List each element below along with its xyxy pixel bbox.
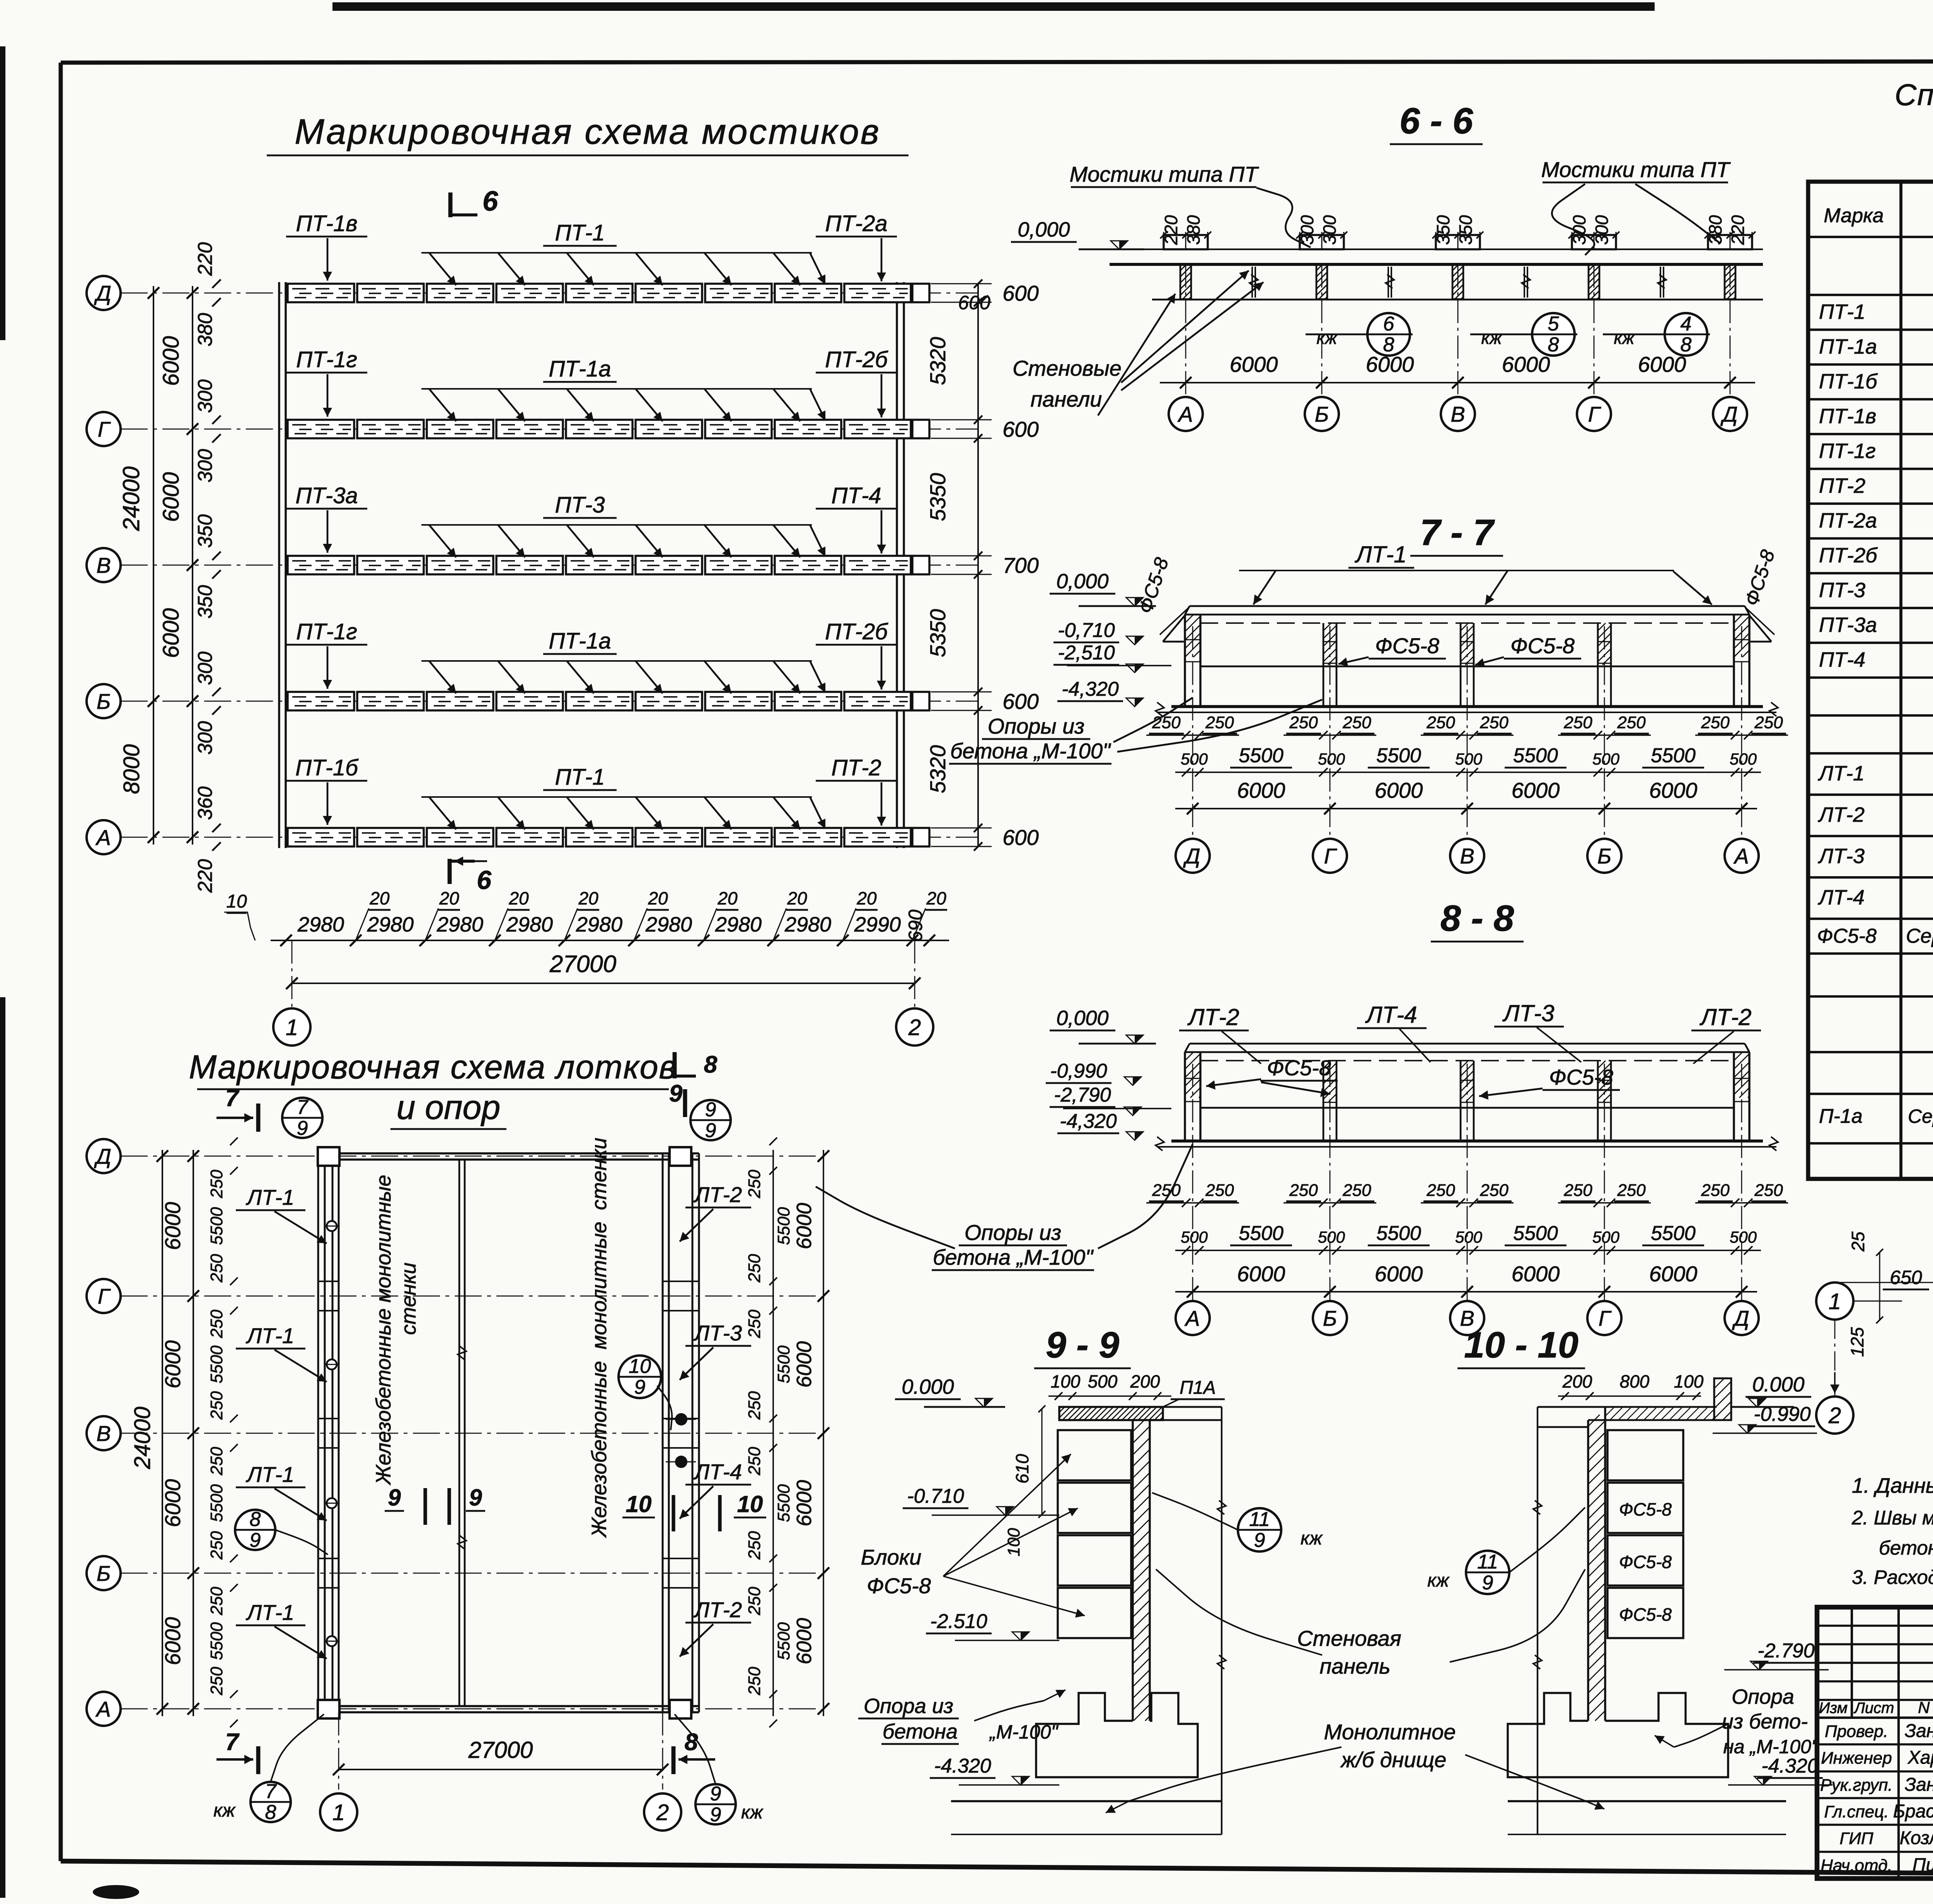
svg-text:0.000: 0.000 [1752,1373,1804,1396]
svg-text:Серия 1.116-1 вып.1: Серия 1.116-1 вып.1 [1906,925,1933,947]
svg-text:2980: 2980 [645,913,692,936]
svg-text:Лист: Лист [1853,1700,1894,1717]
svg-text:ЛТ-1: ЛТ-1 [1354,542,1406,567]
svg-text:10: 10 [626,1491,652,1517]
svg-text:5500: 5500 [774,1484,793,1522]
svg-text:Мостики типа ПТ: Мостики типа ПТ [1541,157,1731,182]
svg-text:500: 500 [1592,1228,1620,1246]
svg-text:П1А: П1А [1180,1378,1216,1398]
svg-text:ЛТ-1: ЛТ-1 [246,1323,294,1348]
svg-text:кж: кж [1301,1528,1323,1549]
svg-text:300: 300 [194,449,216,483]
svg-text:ПТ-1г: ПТ-1г [296,347,357,372]
svg-text:10 - 10: 10 - 10 [1464,1325,1578,1366]
svg-text:-4,320: -4,320 [1060,1110,1117,1133]
svg-text:А: А [1733,844,1749,868]
svg-text:6000: 6000 [1502,352,1550,376]
svg-text:5320: 5320 [926,745,950,794]
svg-text:бетона „М-100": бетона „М-100" [933,1245,1094,1269]
svg-text:6000: 6000 [160,1340,185,1389]
svg-text:500: 500 [1730,1228,1757,1246]
svg-text:-2.510: -2.510 [930,1610,987,1633]
svg-text:250: 250 [1563,713,1592,732]
svg-text:5350: 5350 [926,473,950,521]
svg-text:0,000: 0,000 [1018,218,1070,241]
svg-text:2980: 2980 [784,913,831,936]
svg-text:кж: кж [741,1802,764,1823]
svg-text:Стеновая: Стеновая [1297,1626,1401,1650]
svg-text:Б: Б [97,689,111,714]
svg-text:5500: 5500 [774,1345,793,1383]
svg-text:300: 300 [194,380,216,413]
svg-text:ПТ-1б: ПТ-1б [295,755,359,780]
svg-text:200: 200 [1562,1371,1592,1391]
svg-text:Д: Д [1732,1306,1749,1330]
svg-text:стенки: стенки [397,1262,420,1335]
svg-text:250: 250 [1426,713,1455,732]
svg-text:5500: 5500 [1239,744,1284,767]
svg-text:5500: 5500 [207,1484,226,1522]
svg-text:6000: 6000 [159,336,184,386]
svg-text:Монолитное: Монолитное [1324,1720,1456,1744]
svg-text:ЛТ-2: ЛТ-2 [694,1597,742,1622]
svg-text:380: 380 [194,313,216,347]
svg-text:Г: Г [1588,402,1601,426]
svg-text:ЛТ-1: ЛТ-1 [246,1600,294,1625]
svg-text:250: 250 [207,1447,226,1476]
svg-text:ЛТ-1: ЛТ-1 [1818,762,1865,785]
svg-text:-4.320: -4.320 [1761,1755,1819,1777]
svg-text:ФС5-8: ФС5-8 [1267,1056,1331,1080]
svg-text:ПТ-1: ПТ-1 [1819,300,1865,324]
svg-text:250: 250 [207,1310,226,1339]
svg-text:ЛТ-1: ЛТ-1 [246,1185,294,1209]
svg-text:Маркировочная схема мостиков: Маркировочная схема мостиков [295,112,881,152]
svg-text:250: 250 [745,1254,764,1283]
svg-text:20: 20 [787,888,807,908]
svg-text:250: 250 [745,1447,764,1476]
svg-text:бетона: бетона [883,1720,958,1743]
svg-text:2980: 2980 [715,913,762,936]
svg-text:350: 350 [1456,215,1476,245]
svg-text:Железобетонные монолитные ст: Железобетонные монолитные стенки [588,1138,611,1538]
svg-text:500: 500 [1318,1228,1345,1246]
svg-text:5500: 5500 [774,1207,793,1245]
svg-text:250: 250 [1205,713,1234,732]
svg-text:Д: Д [94,1144,111,1168]
svg-text:9: 9 [388,1485,401,1511]
svg-text:5500: 5500 [1651,1222,1696,1245]
svg-text:25: 25 [1848,1231,1868,1252]
svg-text:бетона „М-100": бетона „М-100" [950,739,1111,763]
svg-text:6000: 6000 [1638,352,1686,376]
svg-text:300: 300 [1297,215,1317,245]
svg-text:6000: 6000 [1375,778,1423,802]
svg-text:ФС5-8: ФС5-8 [867,1574,931,1598]
svg-text:1: 1 [286,1015,298,1040]
svg-text:10: 10 [226,891,247,912]
svg-text:Зантберг: Зантберг [1905,1775,1933,1795]
svg-text:100: 100 [1674,1371,1704,1391]
svg-text:250: 250 [745,1391,764,1420]
svg-text:Б: Б [1315,402,1329,426]
svg-text:Провер.: Провер. [1825,1722,1888,1741]
svg-text:6000: 6000 [1237,778,1285,802]
svg-text:250: 250 [207,1391,226,1420]
svg-text:6000: 6000 [1512,778,1560,802]
svg-text:500: 500 [1730,750,1757,768]
svg-text:ПТ-3а: ПТ-3а [1819,613,1877,637]
svg-text:600: 600 [1002,825,1038,850]
svg-text:Спецификация элементов к марки: Спецификация элементов к маркировочным [1895,78,1933,112]
svg-text:250: 250 [1701,713,1730,732]
svg-text:Нач.отд.: Нач.отд. [1820,1856,1892,1875]
svg-text:6: 6 [1383,313,1394,335]
svg-text:Г: Г [1599,1306,1612,1330]
svg-text:ПТ-2а: ПТ-2а [1819,509,1877,532]
svg-text:250: 250 [207,1254,226,1283]
svg-text:0,000: 0,000 [1056,1006,1108,1030]
svg-text:9: 9 [1482,1572,1493,1594]
svg-text:кж: кж [1316,328,1338,348]
svg-text:„М-100": „М-100" [989,1721,1059,1743]
svg-text:ПТ-1в: ПТ-1в [296,211,357,236]
svg-text:250: 250 [1754,1181,1783,1200]
svg-text:6000: 6000 [160,1202,185,1250]
svg-text:5500: 5500 [1376,1222,1421,1245]
svg-text:ПТ-1а: ПТ-1а [549,628,611,654]
svg-text:5500: 5500 [1513,744,1558,767]
svg-text:В: В [96,553,111,577]
svg-text:6: 6 [482,186,498,217]
svg-text:Г: Г [1324,844,1337,868]
svg-text:ЛТ-3: ЛТ-3 [1818,845,1865,868]
svg-text:Г: Г [98,417,111,441]
svg-text:Рук.груп.: Рук.груп. [1820,1776,1893,1795]
svg-text:-2.790: -2.790 [1757,1640,1815,1662]
svg-text:ЛТ-4: ЛТ-4 [694,1460,742,1484]
svg-text:Блоки: Блоки [861,1545,922,1569]
svg-text:250: 250 [1289,713,1318,732]
svg-text:600: 600 [958,292,990,313]
svg-text:ФС5-8: ФС5-8 [1619,1552,1672,1572]
svg-text:610: 610 [1012,1454,1032,1483]
svg-text:9: 9 [469,1485,482,1511]
svg-text:220: 220 [194,859,216,893]
svg-text:ПТ-3а: ПТ-3а [295,483,358,508]
svg-text:5350: 5350 [926,609,950,657]
svg-text:600: 600 [1002,281,1038,305]
svg-text:0.000: 0.000 [902,1375,954,1398]
svg-text:5500: 5500 [1651,744,1696,767]
svg-text:кж: кж [213,1800,236,1821]
svg-text:Опора: Опора [1732,1685,1794,1708]
svg-text:-0.710: -0.710 [907,1485,964,1507]
svg-text:2980: 2980 [367,913,414,936]
svg-text:4: 4 [1681,313,1692,335]
svg-text:700: 700 [1002,553,1038,577]
svg-text:5500: 5500 [207,1622,226,1660]
svg-text:11: 11 [1477,1551,1498,1573]
svg-text:250: 250 [1701,1181,1730,1200]
svg-text:250: 250 [1152,1181,1181,1200]
svg-text:7: 7 [225,1085,240,1112]
svg-text:ПТ-1а: ПТ-1а [549,356,611,381]
svg-text:24000: 24000 [118,467,144,531]
svg-text:ПТ-1а: ПТ-1а [1819,335,1877,358]
svg-text:2980: 2980 [576,913,622,936]
svg-text:на „М-100": на „М-100" [1723,1736,1819,1758]
svg-text:250: 250 [207,1170,226,1199]
svg-text:2: 2 [908,1015,921,1040]
svg-text:100: 100 [1004,1528,1023,1557]
svg-text:ФС5-8: ФС5-8 [1619,1499,1672,1519]
svg-text:7 - 7: 7 - 7 [1420,512,1495,553]
svg-text:8000: 8000 [119,744,144,794]
svg-text:7: 7 [225,1729,240,1756]
svg-text:ЛТ-3: ЛТ-3 [1502,1000,1554,1026]
svg-text:2980: 2980 [436,913,483,936]
svg-text:5500: 5500 [774,1622,793,1660]
svg-text:6000: 6000 [1649,1262,1698,1286]
svg-text:Стеновые: Стеновые [1013,356,1122,380]
svg-text:300: 300 [1319,215,1340,245]
svg-text:6: 6 [477,865,492,895]
svg-text:ФС5-8: ФС5-8 [1375,634,1439,658]
svg-text:1: 1 [332,1800,345,1825]
svg-text:кж: кж [1481,328,1503,348]
svg-text:6000: 6000 [793,1203,816,1249]
svg-text:А: А [1177,402,1193,426]
svg-text:600: 600 [1002,417,1038,441]
svg-text:Б: Б [1597,844,1611,868]
svg-text:6000: 6000 [793,1618,816,1664]
svg-text:6 - 6: 6 - 6 [1399,100,1473,141]
svg-text:5500: 5500 [1376,744,1421,767]
svg-text:350: 350 [1433,215,1453,245]
svg-text:Опора из: Опора из [864,1695,953,1718]
svg-text:250: 250 [1480,713,1509,732]
svg-text:9: 9 [297,1117,308,1139]
svg-text:ЛТ-4: ЛТ-4 [1365,1002,1417,1028]
svg-text:ГИП: ГИП [1839,1829,1873,1848]
svg-text:250: 250 [1289,1181,1318,1200]
svg-text:24000: 24000 [130,1407,155,1469]
svg-text:кж: кж [1427,1570,1450,1591]
svg-text:3. Расход бетона „М-100" на: 3. Расход бетона „М-100" на монолитные о… [1852,1566,1933,1588]
svg-text:-0,990: -0,990 [1050,1060,1107,1082]
svg-text:20: 20 [717,888,738,908]
svg-text:Д: Д [1183,844,1200,868]
svg-text:11: 11 [1249,1508,1270,1531]
svg-text:250: 250 [1426,1181,1455,1200]
svg-text:250: 250 [745,1170,764,1199]
svg-text:Марка: Марка [1824,204,1884,227]
svg-text:10: 10 [629,1355,651,1378]
svg-text:20: 20 [508,888,529,908]
svg-text:2990: 2990 [854,913,901,936]
svg-text:6000: 6000 [1237,1262,1285,1286]
svg-text:9: 9 [669,1080,683,1107]
svg-text:ФС5-8: ФС5-8 [1549,1065,1613,1089]
svg-text:9: 9 [1254,1529,1265,1551]
svg-text:ПТ-1г: ПТ-1г [1819,439,1876,463]
svg-text:650: 650 [1890,1267,1922,1288]
svg-text:250: 250 [1563,1181,1592,1200]
svg-text:20: 20 [856,888,877,908]
svg-text:Инженер: Инженер [1821,1749,1892,1768]
svg-text:ПТ-2б: ПТ-2б [825,347,888,372]
svg-text:-4,320: -4,320 [1062,678,1119,700]
svg-text:-0.990: -0.990 [1754,1403,1811,1425]
svg-text:ПТ-2б: ПТ-2б [825,619,888,644]
svg-text:Железобетонные монолитные: Железобетонные монолитные [372,1175,395,1485]
svg-text:690: 690 [905,909,926,942]
svg-text:380: 380 [1183,215,1203,245]
svg-text:ПТ-4: ПТ-4 [831,483,881,508]
svg-text:250: 250 [745,1310,764,1339]
svg-text:500: 500 [1181,750,1208,768]
svg-text:9: 9 [705,1098,716,1121]
svg-text:Серия ИС-01-04 вып.2 и кж-: Серия ИС-01-04 вып.2 и кж- [1908,1105,1933,1127]
svg-text:500: 500 [1455,1228,1483,1246]
svg-text:Б: Б [97,1561,111,1586]
svg-text:1: 1 [1829,1289,1841,1314]
svg-text:5500: 5500 [1239,1222,1284,1245]
svg-text:27000: 27000 [549,951,616,978]
svg-text:ПТ-1: ПТ-1 [555,765,605,790]
svg-text:ЛТ-1: ЛТ-1 [246,1462,294,1487]
svg-text:250: 250 [1480,1181,1509,1200]
svg-text:Б: Б [1323,1306,1337,1330]
svg-text:27000: 27000 [468,1737,533,1763]
svg-text:9: 9 [634,1376,646,1398]
svg-text:панель: панель [1319,1654,1390,1678]
svg-text:Брасловский: Брасловский [1893,1801,1933,1822]
svg-text:20: 20 [578,888,598,908]
svg-text:6000: 6000 [1375,1262,1423,1286]
svg-text:ПТ-1в: ПТ-1в [1819,405,1876,428]
svg-text:А: А [1184,1306,1200,1330]
svg-text:ж/б днище: ж/б днище [1340,1747,1447,1772]
svg-text:и опор: и опор [397,1088,501,1126]
svg-text:2: 2 [1828,1403,1841,1428]
svg-text:300: 300 [194,652,216,685]
svg-text:5500: 5500 [207,1207,226,1245]
svg-text:Харченко: Харченко [1907,1747,1933,1768]
svg-text:250: 250 [745,1667,764,1696]
svg-text:250: 250 [1342,713,1371,732]
svg-text:2. Швы между плитами мостиков: 2. Швы между плитами мостиков заполнить … [1851,1507,1933,1529]
svg-text:8 - 8: 8 - 8 [1440,898,1514,939]
svg-text:В: В [1451,402,1465,426]
svg-text:ФС5-8: ФС5-8 [1817,925,1877,947]
svg-text:10: 10 [737,1491,763,1517]
svg-text:20: 20 [648,888,668,908]
svg-text:250: 250 [1342,1181,1371,1200]
svg-text:125: 125 [1847,1327,1867,1357]
svg-text:800: 800 [1620,1371,1650,1391]
svg-text:5500: 5500 [207,1345,226,1383]
svg-text:Зантберг: Зантберг [1905,1721,1933,1741]
svg-text:20: 20 [439,888,459,908]
svg-text:9: 9 [705,1119,716,1142]
svg-text:8: 8 [265,1801,276,1824]
svg-text:ПТ-2б: ПТ-2б [1819,544,1878,567]
svg-text:250: 250 [207,1667,226,1696]
svg-text:2: 2 [656,1800,669,1825]
svg-text:Пичахчи: Пичахчи [1913,1855,1933,1875]
svg-text:360: 360 [194,787,216,820]
svg-text:Козловская: Козловская [1900,1828,1933,1848]
svg-text:N докум.: N докум. [1918,1698,1933,1717]
svg-text:220: 220 [1728,215,1748,245]
svg-text:300: 300 [1592,215,1612,245]
svg-text:Маркировочная схема лотков: Маркировочная схема лотков [189,1049,677,1086]
svg-text:Д: Д [94,281,111,305]
svg-text:6000: 6000 [793,1341,816,1388]
svg-text:6000: 6000 [1512,1262,1560,1286]
svg-text:350: 350 [194,514,216,548]
svg-text:-0,710: -0,710 [1058,619,1115,642]
svg-text:кж: кж [1614,328,1635,348]
svg-text:220: 220 [194,242,216,276]
svg-text:ПТ-2: ПТ-2 [831,755,881,780]
svg-text:ЛТ-2: ЛТ-2 [1699,1004,1751,1030]
svg-text:ПТ-4: ПТ-4 [1819,648,1865,671]
svg-text:500: 500 [1592,750,1620,768]
svg-text:8: 8 [704,1051,718,1078]
svg-text:5320: 5320 [926,337,950,385]
svg-text:20: 20 [369,888,390,908]
svg-text:9: 9 [710,1804,721,1826]
svg-text:300: 300 [194,721,216,755]
svg-text:2980: 2980 [297,913,344,936]
svg-text:-2,790: -2,790 [1054,1084,1111,1106]
svg-text:ЛТ-2: ЛТ-2 [1818,803,1865,826]
svg-text:500: 500 [1318,750,1345,768]
svg-text:А: А [95,1697,111,1721]
svg-text:ПТ-3: ПТ-3 [1819,579,1865,602]
svg-text:250: 250 [207,1587,226,1616]
svg-text:ФС5-8: ФС5-8 [1510,634,1575,658]
svg-text:9: 9 [250,1529,261,1551]
svg-text:7: 7 [297,1096,309,1119]
svg-text:6000: 6000 [1366,352,1414,376]
svg-text:ПТ-1г: ПТ-1г [296,619,357,644]
svg-text:ПТ-1б: ПТ-1б [1819,370,1878,393]
svg-text:Изм: Изм [1819,1700,1848,1717]
svg-text:5500: 5500 [1513,1222,1558,1245]
svg-text:ЛТ-4: ЛТ-4 [1818,886,1865,909]
svg-text:0,000: 0,000 [1056,570,1108,593]
svg-text:7: 7 [265,1780,277,1803]
svg-text:ЛТ-3: ЛТ-3 [694,1321,742,1345]
svg-text:ФС5-8: ФС5-8 [1619,1604,1672,1625]
svg-text:Гл.спец.: Гл.спец. [1824,1802,1889,1821]
svg-text:П-1а: П-1а [1819,1105,1863,1127]
svg-text:8: 8 [250,1508,261,1531]
svg-text:бетоном, соответствующим по м: бетоном, соответствующим по марке и плот… [1879,1537,1933,1559]
svg-text:250: 250 [745,1587,764,1616]
svg-text:Мостики типа ПТ: Мостики типа ПТ [1070,162,1260,186]
svg-text:6000: 6000 [160,1617,185,1666]
svg-text:из бето-: из бето- [1722,1710,1808,1733]
svg-text:250: 250 [1205,1181,1234,1200]
svg-text:6000: 6000 [1230,352,1278,376]
svg-text:ПТ-1: ПТ-1 [555,220,605,245]
svg-text:9: 9 [710,1783,721,1805]
